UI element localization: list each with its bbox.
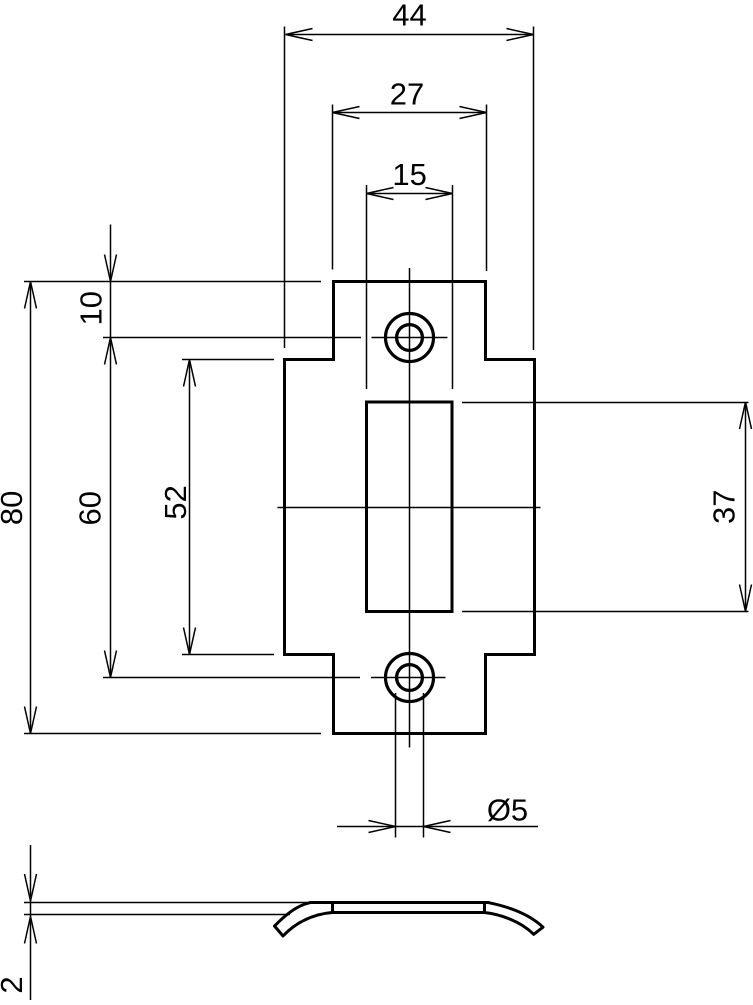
svg-text:44: 44 [392,0,426,33]
svg-text:52: 52 [158,485,193,519]
svg-text:60: 60 [73,491,108,525]
svg-text:15: 15 [392,157,426,192]
svg-text:37: 37 [707,490,742,524]
svg-text:27: 27 [390,77,424,112]
svg-text:Ø5: Ø5 [487,793,528,828]
svg-text:2: 2 [0,976,29,993]
svg-text:80: 80 [0,491,29,525]
svg-text:10: 10 [74,291,109,325]
